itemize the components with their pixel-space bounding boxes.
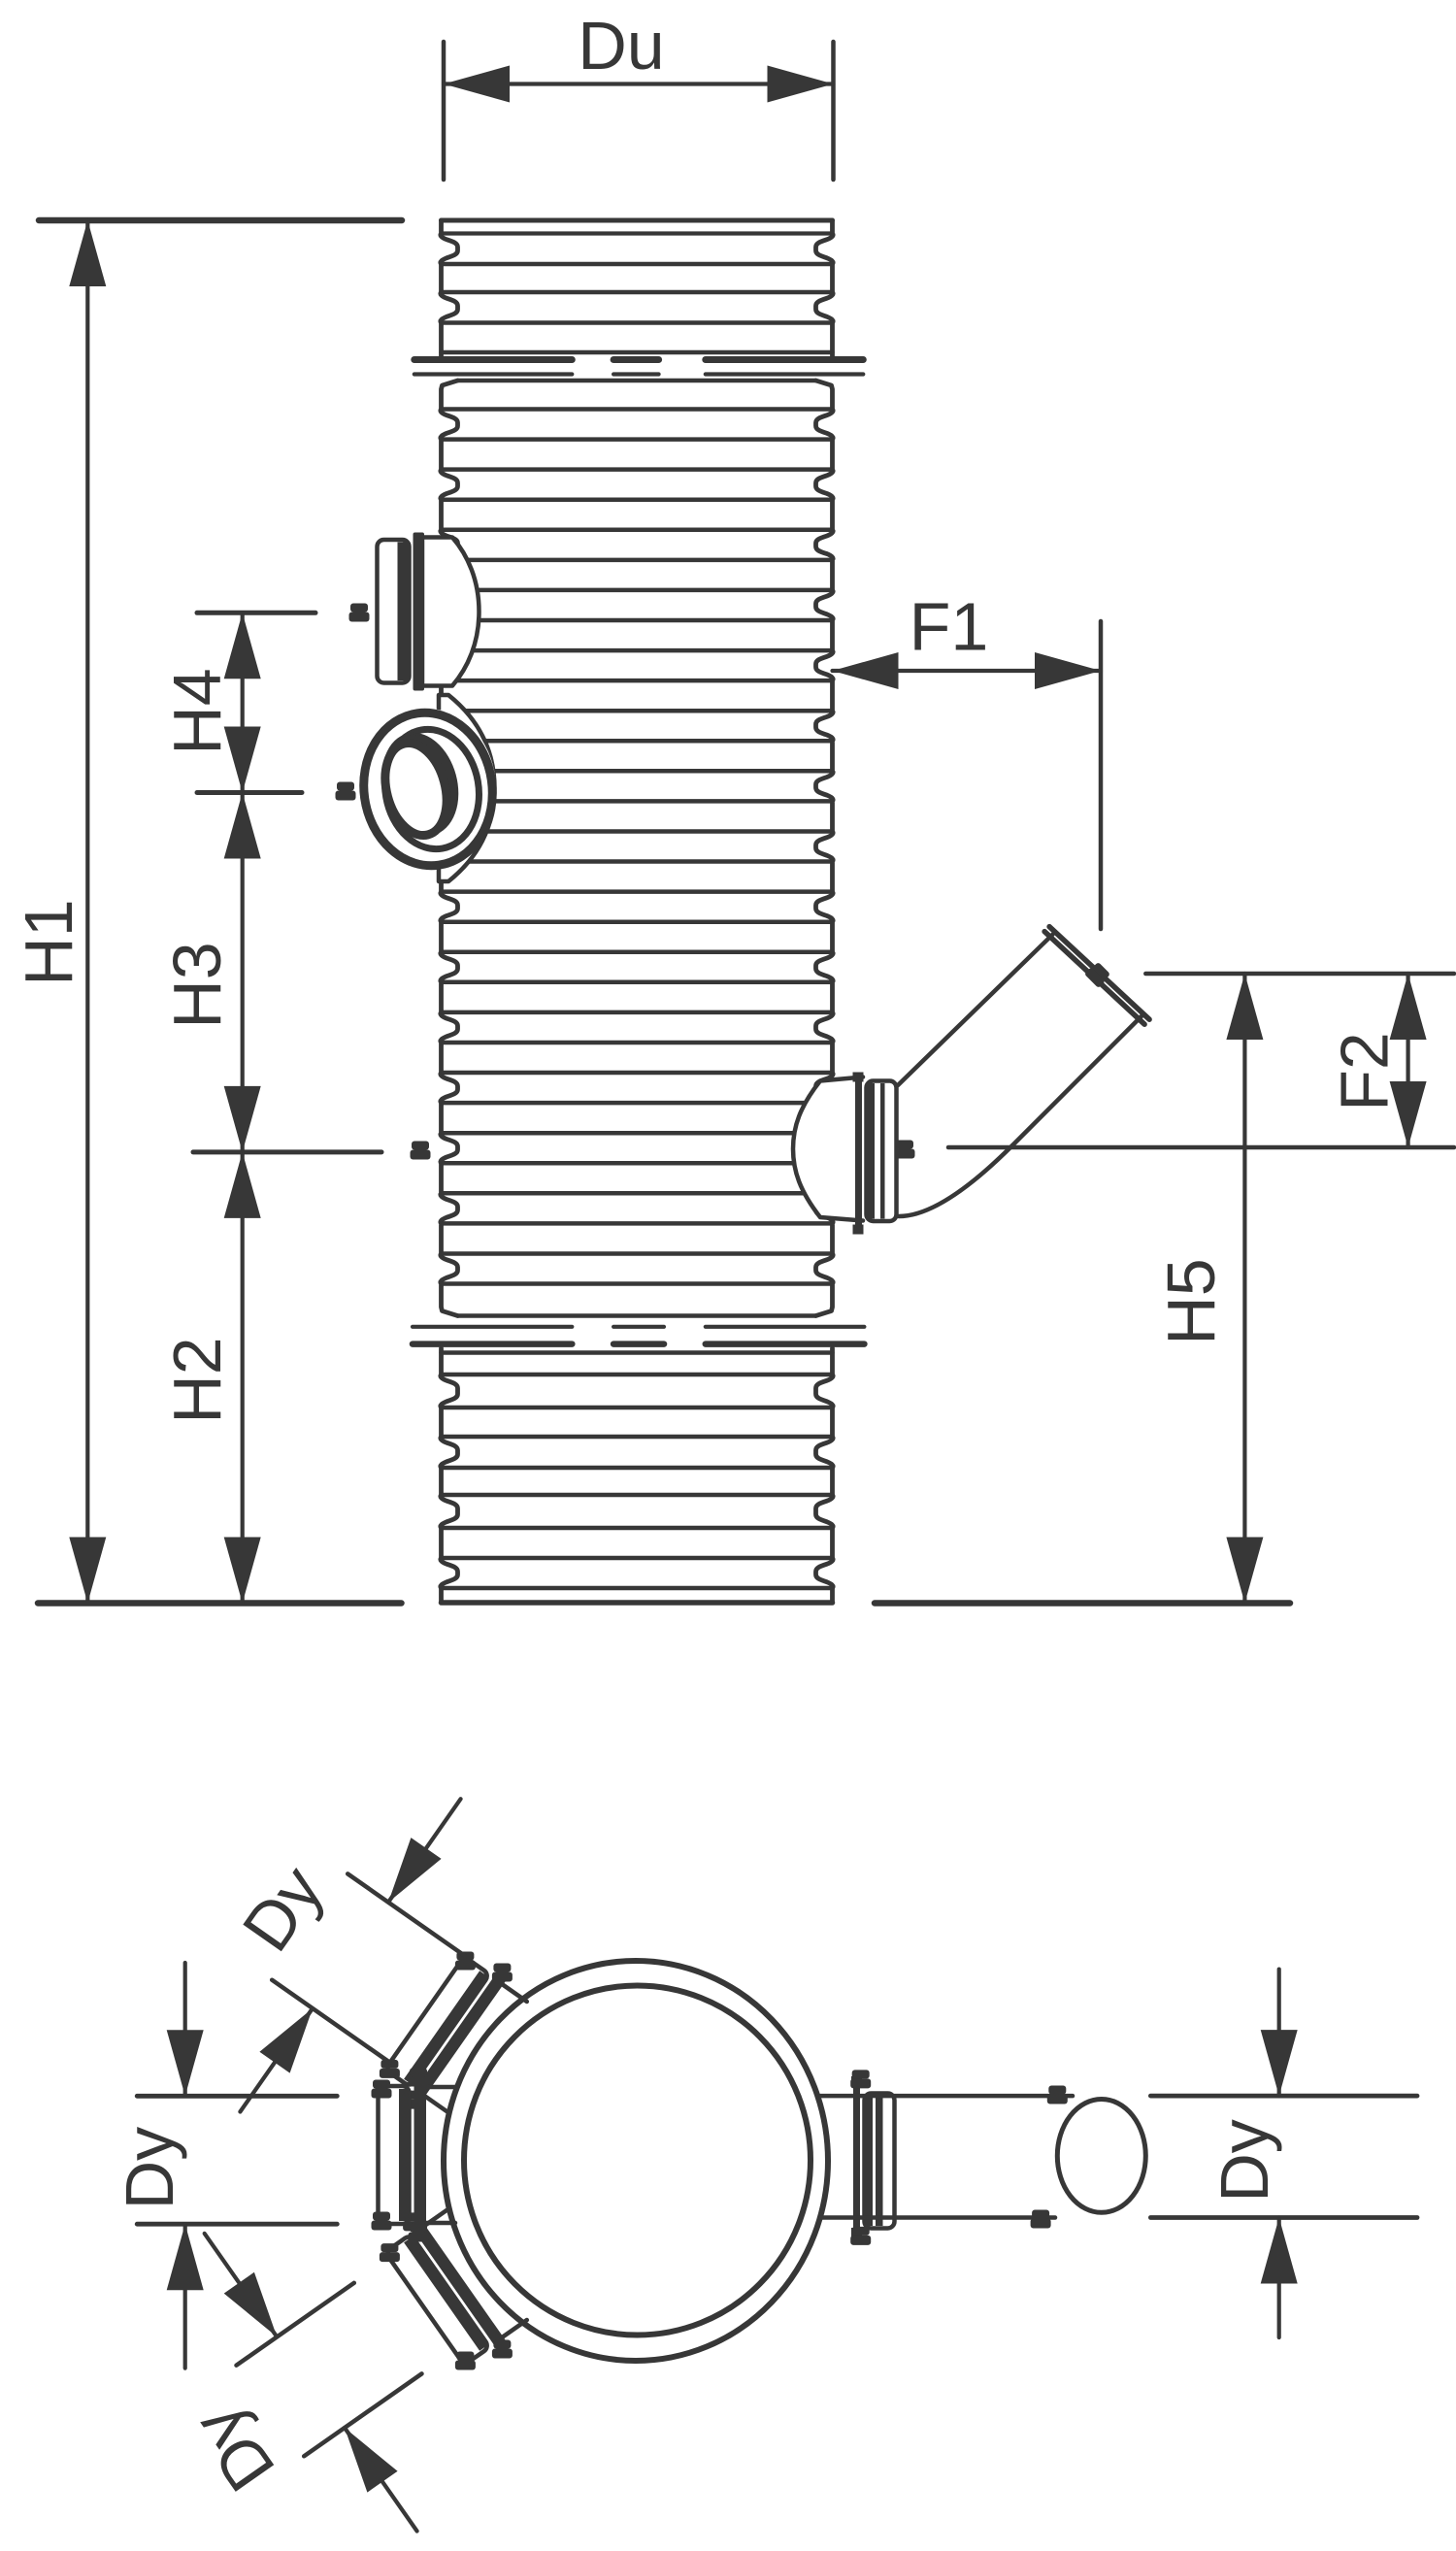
plan outlet pipe to the right — [851, 2076, 862, 2086]
plan view: chamber inner wall — [464, 1986, 811, 2336]
riser pipe: bottom section corrugations — [441, 1348, 833, 1603]
dimension Dy (upper-left 45 socket) — [240, 1799, 465, 2111]
joint coupler 1 — [414, 360, 864, 375]
socket S2: left 45-degree socket seen face-on (side view) — [439, 695, 495, 881]
outlet pipe end cap — [1049, 927, 1149, 1020]
svg-text:F2: F2 — [1327, 1032, 1403, 1111]
riser pipe: upper section corrugations — [441, 220, 833, 360]
dimension chain H4 / H3 / H2 — [193, 613, 381, 1603]
plan socket: lower-left (-35 deg) — [421, 2208, 527, 2339]
dimension F1 — [833, 621, 1102, 929]
svg-text:Dy: Dy — [1207, 2119, 1282, 2203]
dimension Dy (middle-left socket) — [137, 1963, 337, 2369]
outlet socket ring and cap — [853, 1073, 864, 1082]
sloped outlet pipe edges — [898, 935, 1052, 1085]
dimension F2 — [1406, 974, 1409, 1147]
dimension Dy (plan outlet) — [1150, 1970, 1417, 2337]
gasket mark at socket S1 — [350, 604, 368, 613]
svg-text:F1: F1 — [910, 589, 989, 665]
reference line at outlet axis level — [948, 1145, 1454, 1150]
socket S1: upper-left spigot (side view) — [422, 538, 480, 686]
dimension Du — [444, 42, 834, 180]
plan socket: middle-left (horizontal) — [421, 2087, 455, 2223]
gasket mark at socket S2 — [337, 782, 354, 791]
svg-text:Dy: Dy — [112, 2127, 187, 2210]
plan socket: upper-left (35 deg) — [421, 1982, 527, 2113]
dimension H1 — [39, 220, 402, 1604]
joint coupler 2 — [413, 1327, 864, 1344]
riser pipe: middle section corrugations — [441, 381, 833, 1316]
outlet socket S3 with 45-degree riser pipe (side view) — [898, 933, 1143, 1217]
dimension H5 — [1242, 974, 1246, 1604]
svg-text:Du: Du — [578, 8, 664, 83]
svg-text:H5: H5 — [1153, 1258, 1229, 1344]
plan outlet straight pipe — [820, 2094, 1073, 2099]
bell of outlet socket — [793, 1077, 863, 1221]
reference line at outlet end-face level — [1145, 972, 1454, 977]
svg-text:H4: H4 — [159, 668, 235, 754]
plan outlet end ellipse — [1057, 2100, 1145, 2213]
gasket marks on outlet — [896, 1141, 913, 1149]
ground line — [38, 1600, 402, 1607]
dimension Dy (lower-left 45 socket) — [205, 2234, 422, 2532]
svg-text:H1: H1 — [11, 899, 86, 985]
svg-text:H3: H3 — [159, 942, 235, 1028]
plan view: chamber outer wall — [444, 1961, 828, 2361]
svg-text:H2: H2 — [159, 1337, 235, 1423]
